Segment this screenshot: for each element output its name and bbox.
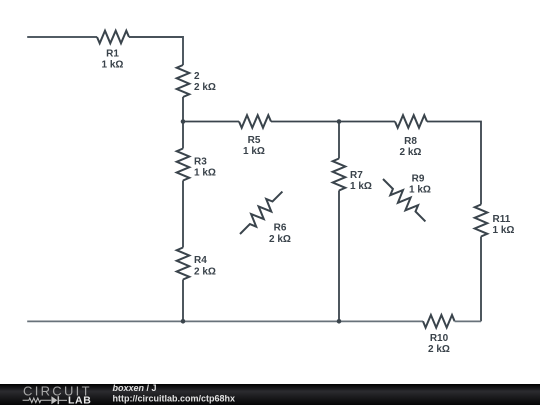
wire	[129, 37, 183, 65]
wire	[427, 122, 481, 205]
svg-text:2 kΩ: 2 kΩ	[428, 344, 450, 355]
resistor R6	[240, 192, 282, 234]
wire	[338, 122, 340, 159]
svg-text:1 kΩ: 1 kΩ	[493, 225, 515, 236]
svg-text:R7: R7	[350, 170, 363, 181]
svg-text:R10: R10	[430, 333, 449, 344]
svg-text:1 kΩ: 1 kΩ	[350, 181, 372, 192]
svg-text:R4: R4	[194, 255, 207, 266]
svg-text:2: 2	[194, 71, 200, 82]
wire	[27, 36, 97, 38]
svg-text:2 kΩ: 2 kΩ	[194, 82, 216, 93]
node junction C	[181, 319, 186, 324]
svg-text:http://circuitlab.com/ctp68hx: http://circuitlab.com/ctp68hx	[113, 394, 236, 404]
resistor R9	[383, 179, 425, 221]
svg-text:1 kΩ: 1 kΩ	[409, 185, 431, 196]
node junction D	[337, 319, 342, 324]
resistor R5	[239, 115, 271, 128]
resistor R7	[333, 159, 346, 191]
resistor R1	[97, 31, 129, 44]
footer bar	[0, 384, 540, 405]
svg-text:boxxen / J: boxxen / J	[113, 383, 157, 393]
svg-text:R5: R5	[248, 135, 261, 146]
svg-text:2 kΩ: 2 kΩ	[194, 267, 216, 278]
node junction A	[181, 119, 186, 124]
resistor R10	[423, 315, 455, 328]
resistor R11	[475, 205, 488, 237]
svg-text:R8: R8	[404, 136, 417, 147]
wire	[183, 121, 239, 123]
svg-text:R6: R6	[274, 223, 287, 234]
svg-text:R11: R11	[493, 214, 511, 225]
resistor R8	[395, 115, 427, 128]
svg-text:1 kΩ: 1 kΩ	[194, 168, 216, 179]
svg-text:R1: R1	[106, 49, 119, 60]
resistor R4	[177, 248, 190, 280]
svg-text:2 kΩ: 2 kΩ	[400, 147, 422, 158]
logo diode symbol	[51, 396, 57, 404]
wire	[271, 121, 395, 123]
wire	[27, 320, 423, 322]
svg-text:R9: R9	[412, 174, 425, 185]
wire	[338, 191, 340, 322]
wire	[480, 237, 482, 322]
resistor 2	[177, 65, 190, 97]
resistor R3	[177, 149, 190, 181]
wire	[182, 280, 184, 322]
svg-text:R3: R3	[194, 157, 207, 168]
svg-text:1 kΩ: 1 kΩ	[243, 146, 265, 157]
svg-text:2 kΩ: 2 kΩ	[269, 234, 291, 245]
logo resistor symbol	[23, 398, 52, 403]
svg-text:1 kΩ: 1 kΩ	[102, 60, 124, 71]
wire	[455, 320, 481, 322]
svg-text:LAB: LAB	[68, 395, 91, 405]
node junction B	[337, 119, 342, 124]
wire	[182, 97, 184, 149]
wire	[182, 181, 184, 248]
